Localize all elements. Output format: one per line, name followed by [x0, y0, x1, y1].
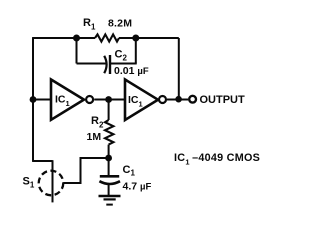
wire S1 to C1 node — [63, 158, 108, 183]
wire top rail right segment — [119, 37, 179, 39]
node inverter1 input junction — [30, 96, 37, 103]
capacitor C1 curved plate — [99, 181, 120, 184]
svg-text:8.2M: 8.2M — [108, 18, 132, 30]
wire C2 right riser — [135, 38, 137, 64]
svg-text:4.7 µF: 4.7 µF — [123, 180, 152, 192]
svg-text:1M: 1M — [87, 131, 102, 143]
resistor R2 — [105, 120, 113, 145]
wire inverter1 input — [33, 99, 51, 101]
node C2 left junction — [73, 35, 80, 42]
ground bar 1 — [99, 195, 121, 197]
wire inverter2 output — [167, 99, 188, 101]
wire C1 top lead — [108, 158, 110, 176]
wire C2 right horizontal — [110, 63, 137, 65]
wire left vertical rail — [32, 37, 34, 161]
ground bar 3 — [106, 204, 113, 206]
wire C2 left drop — [76, 38, 78, 64]
capacitor C1 top plate — [100, 175, 119, 178]
node C2 right junction — [132, 35, 139, 42]
wire top rail left segment — [33, 37, 95, 39]
op-amp U1 inverter IC1a bubble — [86, 96, 93, 103]
wire right feedback vertical — [178, 38, 180, 99]
wire R2 top lead — [108, 100, 110, 121]
wire S1 top lead — [32, 160, 52, 162]
wire C2 left horizontal — [77, 63, 107, 65]
svg-text:OUTPUT: OUTPUT — [200, 94, 246, 106]
node output junction — [175, 96, 182, 103]
switch S1 dashed circle — [39, 171, 64, 196]
node R2 top junction — [105, 96, 112, 103]
resistor R1 — [95, 34, 119, 41]
wire inverter1 output to inverter2 input — [94, 99, 125, 101]
switch S1 plunger — [52, 160, 54, 202]
capacitor C2 straight plate — [109, 55, 111, 74]
wire C1 bottom lead — [108, 184, 110, 197]
ground bar 2 — [104, 198, 116, 200]
op-amp U1 inverter IC1a triangle — [51, 80, 84, 120]
svg-text:0.01 µF: 0.01 µF — [114, 65, 149, 77]
output terminal circle — [189, 96, 196, 103]
op-amp U2 inverter IC1b triangle — [125, 80, 158, 121]
node C1 junction — [105, 155, 112, 162]
op-amp U2 inverter IC1b bubble — [159, 96, 166, 103]
wire R2 bottom lead — [108, 145, 110, 158]
capacitor C2 curved plate — [104, 56, 106, 73]
